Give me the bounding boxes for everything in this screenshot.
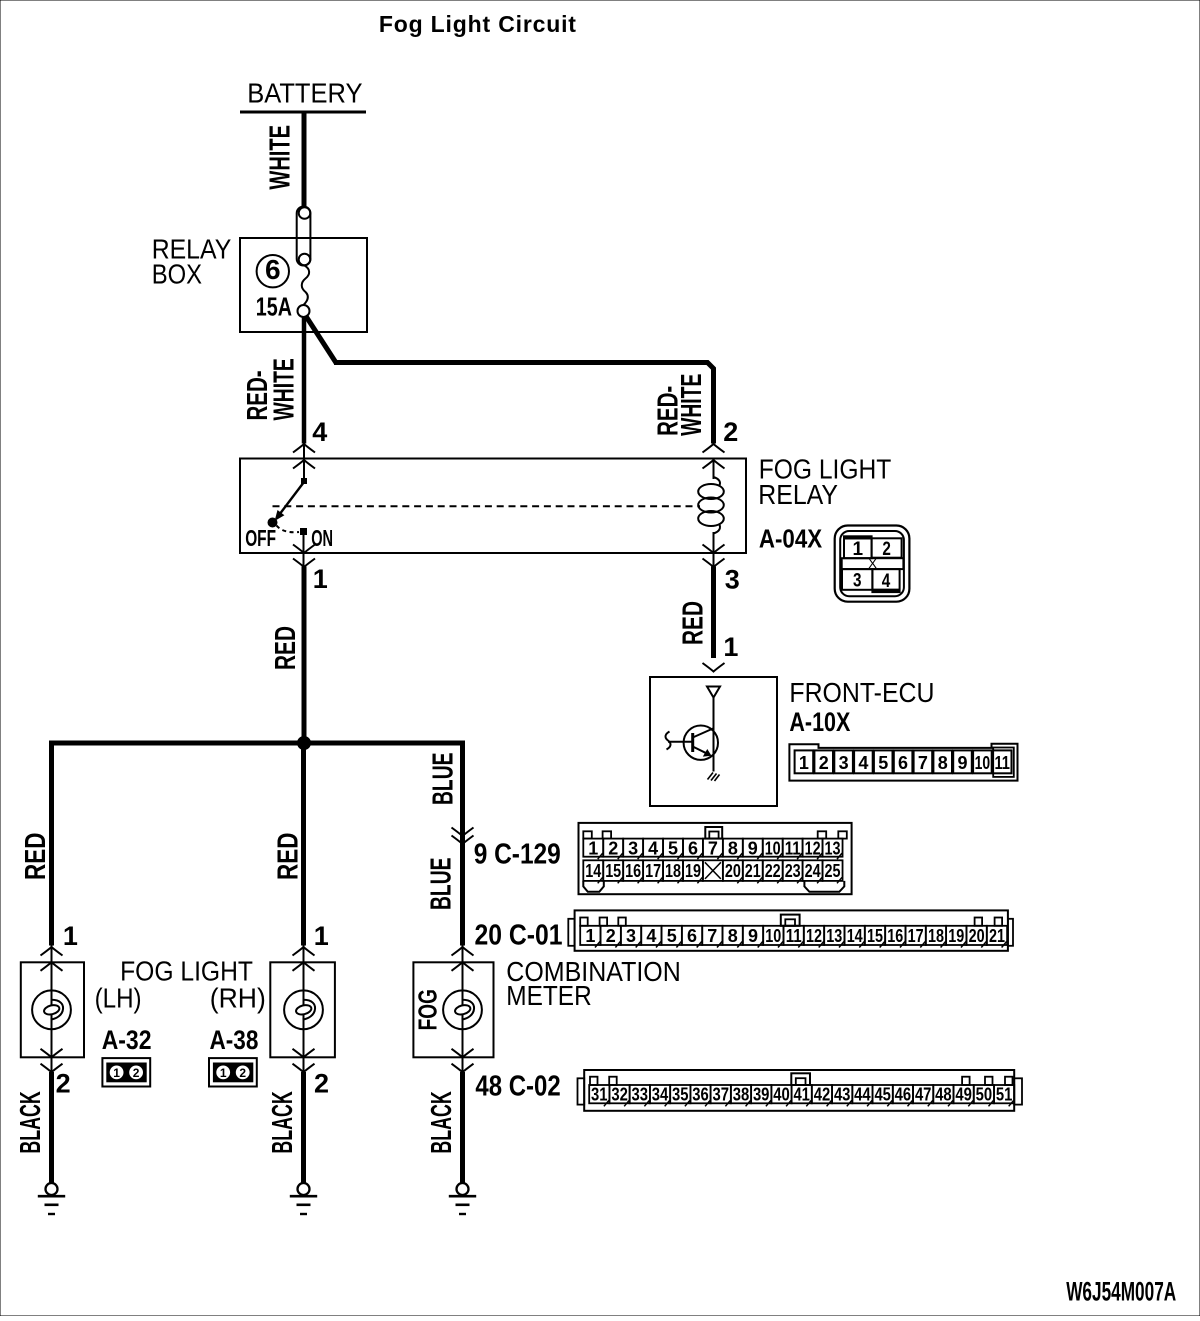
svg-text:4: 4 [858,753,868,773]
distribution bus wire [49,741,465,746]
svg-text:12: 12 [806,926,822,946]
svg-text:2: 2 [133,1066,140,1080]
svg-text:4: 4 [312,417,327,447]
svg-text:19: 19 [948,926,964,946]
svg-text:1: 1 [585,926,595,946]
svg-text:3: 3 [628,839,638,859]
wire RH to ground [301,1072,306,1184]
svg-text:48 C-02: 48 C-02 [475,1071,560,1103]
svg-text:1: 1 [314,921,329,951]
connector C-129 pinout [579,823,852,894]
connector chevrons pin 4 [293,444,315,453]
svg-text:48: 48 [935,1085,952,1105]
svg-text:8: 8 [728,839,738,859]
svg-text:1: 1 [113,1066,120,1080]
svg-text:51: 51 [996,1085,1013,1105]
svg-text:2: 2 [239,1066,246,1080]
svg-text:43: 43 [834,1085,851,1105]
svg-text:FRONT-ECU: FRONT-ECU [789,677,934,708]
svg-text:14: 14 [585,861,601,881]
svg-text:ON: ON [311,525,333,551]
combination meter label [506,956,681,1011]
wire LH to ground [49,1072,54,1184]
svg-text:BLACK: BLACK [15,1091,47,1153]
svg-text:14: 14 [847,926,863,946]
svg-text:Fog Light Circuit: Fog Light Circuit [379,11,576,37]
svg-text:24: 24 [805,861,821,881]
svg-text:2: 2 [608,839,618,859]
svg-text:(RH): (RH) [210,983,266,1014]
battery B1 [240,78,366,112]
svg-text:17: 17 [908,926,924,946]
svg-text:15: 15 [605,861,621,881]
connector C-01 pinout [568,910,1013,950]
front-ecu input triangle [707,687,720,698]
svg-text:18: 18 [928,926,944,946]
transistor Q1 [665,726,718,760]
fuse F6 [297,207,311,318]
relay switch [269,478,308,535]
svg-text:A-38: A-38 [210,1025,259,1055]
svg-text:7: 7 [918,753,928,773]
svg-text:46: 46 [895,1085,912,1105]
connector A-10X pinout [789,744,1017,781]
fog light RH internal wire [303,946,305,1006]
front-ecu box [650,677,777,806]
svg-text:10: 10 [765,839,781,859]
svg-text:21: 21 [745,861,761,881]
svg-text:8: 8 [728,926,738,946]
svg-text:METER: METER [506,980,591,1011]
svg-text:15: 15 [867,926,883,946]
svg-text:RED: RED [678,601,710,645]
wire fuse to relay pin 4 [302,317,307,444]
meter entry chevrons [452,947,474,956]
svg-text:41: 41 [793,1085,810,1105]
svg-text:20: 20 [725,861,741,881]
relay box outline [240,238,367,332]
svg-text:6: 6 [898,753,908,773]
fuse number 6 [257,254,289,287]
svg-text:FOG: FOG [413,989,443,1030]
svg-text:15A: 15A [256,291,292,321]
power bus wire to relay pin 2 [334,363,714,444]
svg-text:31: 31 [591,1085,608,1105]
combination meter box [413,962,493,1057]
connector A-04X pinout [835,526,910,602]
svg-text:9: 9 [748,839,758,859]
svg-text:2: 2 [723,417,738,447]
fog light LH bulb [32,990,71,1029]
front-ecu internal wire [713,698,715,772]
svg-text:WHITE: WHITE [268,358,300,420]
svg-text:12: 12 [805,839,821,859]
svg-text:RELAY: RELAY [758,479,838,510]
svg-text:37: 37 [713,1085,730,1105]
svg-text:A-32: A-32 [102,1025,152,1055]
svg-text:10: 10 [975,753,991,773]
svg-text:1: 1 [723,632,738,662]
svg-text:20: 20 [969,926,985,946]
svg-text:2: 2 [56,1069,71,1099]
svg-text:18: 18 [665,861,681,881]
svg-text:OFF: OFF [245,525,276,551]
svg-text:RED: RED [270,626,302,670]
connector C-02 pinout [578,1070,1023,1111]
svg-text:47: 47 [915,1085,932,1105]
svg-text:1: 1 [799,753,809,773]
wire label RED-WHITE left [242,358,300,420]
svg-text:8: 8 [938,753,948,773]
svg-text:1: 1 [853,539,864,560]
wire switch to pin 4 internal [303,444,305,478]
svg-text:40: 40 [773,1085,790,1105]
svg-text:3: 3 [839,753,849,773]
fog light RH exit chevrons [293,1049,315,1058]
svg-text:BLACK: BLACK [267,1091,299,1153]
wire fuse branch diagonal [306,316,337,364]
svg-text:A-10X: A-10X [789,707,850,737]
svg-text:34: 34 [652,1085,669,1105]
front-ecu internal ground [708,773,720,782]
svg-text:6: 6 [688,839,698,859]
svg-text:1: 1 [220,1066,227,1080]
ground RH [298,1183,310,1195]
inline connector C-129 chevrons [452,828,474,837]
svg-text:4: 4 [646,926,656,946]
wire relay pin3 to front-ecu [711,567,716,659]
svg-text:2: 2 [819,753,829,773]
svg-text:22: 22 [765,861,781,881]
svg-text:9: 9 [748,926,758,946]
wire to combination meter [460,741,465,946]
relay internal dashed link [273,505,701,507]
connector A-32 pinout [102,1058,150,1086]
svg-text:9: 9 [957,753,967,773]
svg-text:A-04X: A-04X [759,524,823,554]
svg-text:BLUE: BLUE [426,858,458,911]
svg-text:36: 36 [692,1085,709,1105]
svg-text:W6J54M007A: W6J54M007A [1066,1276,1176,1306]
svg-text:3: 3 [626,926,636,946]
svg-text:2: 2 [882,539,891,560]
svg-text:13: 13 [825,839,841,859]
svg-text:RED: RED [273,833,305,881]
svg-text:5: 5 [668,839,678,859]
svg-text:1: 1 [313,564,328,594]
svg-text:49: 49 [955,1085,972,1105]
wire ON contact to pin 1 [303,534,305,567]
svg-text:16: 16 [625,861,641,881]
svg-text:7: 7 [707,926,717,946]
connector chevrons pin 2 [703,444,725,453]
connector A-38 pinout [209,1058,257,1086]
relay coil [698,459,724,568]
svg-text:50: 50 [976,1085,993,1105]
svg-text:6: 6 [687,926,697,946]
fog light RH box [270,962,335,1057]
fog light LH exit chevrons [41,1049,63,1058]
fog light relay label [758,453,891,510]
junction node [298,737,311,750]
svg-text:23: 23 [785,861,801,881]
svg-text:42: 42 [814,1085,831,1105]
svg-text:38: 38 [733,1085,750,1105]
svg-text:21: 21 [989,926,1005,946]
svg-text:20 C-01: 20 C-01 [475,920,563,952]
svg-text:BLACK: BLACK [426,1091,458,1153]
svg-text:45: 45 [874,1085,891,1105]
svg-text:44: 44 [854,1085,871,1105]
svg-text:3: 3 [725,565,740,595]
svg-text:7: 7 [708,839,718,859]
svg-text:BLUE: BLUE [428,753,460,806]
svg-text:9 C-129: 9 C-129 [474,838,561,870]
svg-text:11: 11 [785,839,801,859]
svg-text:2: 2 [606,926,616,946]
relay box label [152,234,232,290]
svg-text:WHITE: WHITE [265,125,297,190]
fog light LH entry chevrons [41,947,63,956]
svg-text:BOX: BOX [152,259,203,290]
svg-text:16: 16 [887,926,903,946]
fog light RH bulb [284,990,323,1029]
ground meter [457,1183,469,1195]
fog light RH entry chevrons [293,947,315,956]
svg-text:5: 5 [878,753,888,773]
fog light LH box [21,962,84,1057]
connector chevrons pin 3 [703,545,725,554]
svg-text:10: 10 [765,926,781,946]
svg-text:25: 25 [825,861,841,881]
fog light relay box [240,459,746,554]
ground LH [46,1183,58,1195]
svg-text:(LH): (LH) [95,983,142,1014]
svg-text:39: 39 [753,1085,770,1105]
svg-text:35: 35 [672,1085,689,1105]
wire to fog light LH [49,741,54,946]
svg-text:BATTERY: BATTERY [247,78,363,109]
svg-text:1: 1 [63,921,78,951]
svg-text:33: 33 [632,1085,649,1105]
meter bulb [443,990,482,1029]
fog light LH internal wire [51,946,53,1006]
svg-text:5: 5 [667,926,677,946]
meter internal wire [462,946,464,1006]
svg-text:32: 32 [611,1085,628,1105]
svg-text:19: 19 [685,861,701,881]
svg-text:RED: RED [20,833,52,881]
svg-text:6: 6 [265,254,281,285]
meter exit chevrons [452,1049,474,1058]
svg-text:2: 2 [314,1069,329,1099]
wire meter to ground [460,1072,465,1184]
svg-text:1: 1 [588,839,598,859]
wire label RED-WHITE right [652,374,708,436]
svg-text:11: 11 [994,753,1010,773]
wire battery to fuse [302,113,307,207]
svg-text:WHITE: WHITE [676,374,708,436]
wire to fog light RH [301,743,306,946]
svg-text:4: 4 [882,571,891,592]
svg-text:17: 17 [645,861,661,881]
svg-text:3: 3 [853,571,862,592]
connector chevron front-ecu [703,663,725,672]
svg-text:13: 13 [826,926,842,946]
connector chevrons pin 1 [293,545,315,554]
wire relay pin1 to junction [302,567,307,746]
svg-text:11: 11 [786,926,802,946]
svg-text:4: 4 [648,839,658,859]
